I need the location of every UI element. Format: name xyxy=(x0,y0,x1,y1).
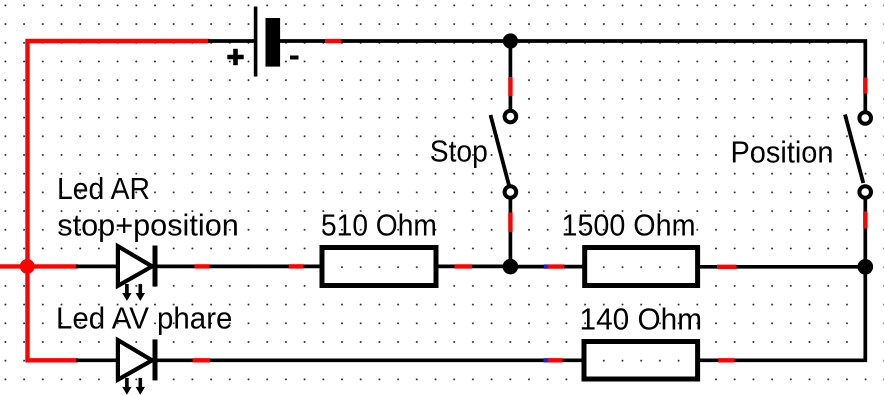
wire: red stub to left edge at Led AR row xyxy=(0,264,78,268)
label Position xyxy=(731,134,834,169)
wire: red current dash before 140 Ohm xyxy=(548,358,563,362)
battery - polarity label xyxy=(290,56,299,60)
label Led AV phare xyxy=(56,301,232,336)
switch S2 Position (open) xyxy=(845,112,871,198)
value label 510 Ohm xyxy=(321,208,437,243)
wire: red current dash after 510 Ohm xyxy=(454,264,472,268)
wire: left rail lower red segment down to Led AV row xyxy=(28,264,79,360)
resistor R2 1500 Ohm xyxy=(585,248,698,286)
wire: 510 Ohm to Stop junction xyxy=(436,265,510,269)
wire: top net, battery+ to left rail (red) xyxy=(28,41,210,266)
LED D2 Led AV phare xyxy=(118,339,155,394)
wire: red current dash before 1500 Ohm xyxy=(548,264,564,268)
svg-text:Position: Position xyxy=(731,134,834,169)
wire: Stop switch to middle net xyxy=(509,198,513,267)
wire: Stop junction to 1500 Ohm xyxy=(510,265,585,269)
label stop+position xyxy=(57,207,239,242)
value label 140 Ohm xyxy=(580,302,703,337)
wire: red current dash after Led AV xyxy=(193,358,211,362)
svg-text:510 Ohm: 510 Ohm xyxy=(321,208,437,243)
LED D1 Led AR stop+position xyxy=(118,246,155,301)
wire: Led AR anode lead xyxy=(76,265,117,269)
wire: Led AR cathode to 510 Ohm xyxy=(155,265,322,269)
resistor R1 510 Ohm xyxy=(322,248,436,286)
wire: battery- to top-right corner and down to Position switch xyxy=(280,41,865,112)
node: junction Stop branch / 510 Ohm / 1500 Ohm xyxy=(503,259,519,275)
svg-text:Led AR: Led AR xyxy=(57,171,150,206)
label Led AR xyxy=(57,171,150,206)
value label 1500 Ohm xyxy=(562,208,696,243)
node: junction of top net and Stop branch xyxy=(503,33,518,48)
wire: red current dash above Stop switch xyxy=(508,77,512,96)
wire: Led AV cathode to 140 Ohm xyxy=(155,358,584,362)
wire: red current dash below Position switch xyxy=(863,212,867,229)
switch S1 Stop (open) xyxy=(491,111,517,198)
node: junction Position branch / 1500 Ohm / 140 Ohm column xyxy=(858,259,874,275)
wire: red current dash after Led AR xyxy=(194,264,209,268)
wire: red current dash before 510 Ohm xyxy=(289,264,303,268)
wire: red current dash after battery xyxy=(325,39,341,43)
resistor R3 140 Ohm xyxy=(584,342,698,380)
wire: Stop branch drop from top net xyxy=(509,41,513,111)
wire: Position switch down to 140 Ohm row corner xyxy=(697,198,865,361)
wire: red current dash above Position switch xyxy=(863,78,867,94)
svg-text:stop+position: stop+position xyxy=(57,207,239,242)
node: red junction on left rail xyxy=(20,259,35,274)
battery + polarity label xyxy=(227,49,243,65)
battery B1 xyxy=(256,7,281,77)
svg-text:1500 Ohm: 1500 Ohm xyxy=(562,208,696,243)
wire: 1500 Ohm to Position junction xyxy=(698,265,865,269)
svg-text:140 Ohm: 140 Ohm xyxy=(580,302,703,337)
wire: battery+ lead (black) xyxy=(208,39,254,43)
svg-text:Stop: Stop xyxy=(430,133,488,168)
svg-text:Led AV phare: Led AV phare xyxy=(56,301,232,336)
wire: red current dash below Stop switch xyxy=(508,213,512,233)
wire: red current dash after 1500 Ohm xyxy=(717,265,737,269)
wire: blue mark before 1500 Ohm dash xyxy=(544,264,548,268)
label Stop xyxy=(430,133,488,168)
wire: blue mark before 140 Ohm dash xyxy=(544,358,548,362)
wire: Led AV anode lead xyxy=(76,358,117,362)
wire: red current dash after 140 Ohm xyxy=(718,358,734,362)
